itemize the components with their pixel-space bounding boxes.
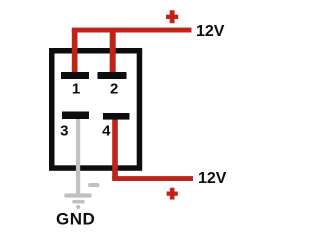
svg-text:1: 1 <box>72 81 80 98</box>
plus sign (top +12V polarity mark) <box>166 10 178 23</box>
wire: bottom +12V horizontal red run <box>112 176 193 181</box>
ground symbol: wide bar <box>66 193 90 197</box>
pin 1 contact bar <box>61 72 89 79</box>
wire: red drop from pin 4 <box>112 119 118 179</box>
ground symbol: offset short bar <box>90 183 98 187</box>
svg-text:12V: 12V <box>196 23 225 40</box>
plus sign (bottom +12V polarity mark) <box>167 188 178 200</box>
svg-text:GND: GND <box>56 209 95 228</box>
connector body J1 (4-pin switch outline) <box>52 51 140 168</box>
wire: red drop to pin 1 <box>72 29 78 73</box>
ground symbol: bottom dot <box>76 205 80 209</box>
pin 2 contact bar <box>98 72 127 79</box>
svg-text:3: 3 <box>60 123 68 140</box>
svg-text:4: 4 <box>102 123 111 140</box>
wire: gray ground lead from pin 3 <box>76 118 80 196</box>
wire: top +12V horizontal red bus <box>72 28 192 33</box>
ground symbol: middle bar <box>74 200 83 204</box>
wire: red drop to pin 2 <box>110 29 116 73</box>
svg-text:12V: 12V <box>198 170 227 187</box>
pin 4 contact bar <box>103 113 130 120</box>
svg-text:2: 2 <box>110 80 118 97</box>
pin 3 contact bar <box>62 112 89 120</box>
